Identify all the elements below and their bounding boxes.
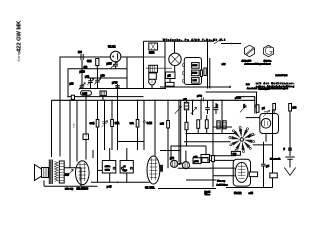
svg-text:0.1M: 0.1M [86,134,88,139]
svg-text:μF500: μF500 [235,97,242,99]
svg-text:Mot.El: Mot.El [205,191,211,194]
svg-text:6M1: 6M1 [87,61,92,63]
svg-text:4G8+Ba: 4G8+Ba [264,61,273,63]
svg-text:NHM: NHM [149,53,154,55]
svg-text:DC30: DC30 [192,73,198,75]
svg-text:μH: μH [168,76,171,78]
svg-text:422 GW MK: 422 GW MK [17,20,23,52]
svg-text:Wua cap: Wua cap [217,180,226,182]
svg-text:μ-45: μ-45 [107,187,112,189]
svg-text:Bei 220 Volt: Bei 220 Volt [276,74,288,77]
svg-text:0.1M: 0.1M [147,123,152,125]
svg-text:An/El Tubes: An/El Tubes [217,183,228,186]
svg-text:Außenansicht gezeichnet: Außenansicht gezeichnet [245,63,271,66]
svg-text:1/2 AZ180: 1/2 AZ180 [77,188,89,191]
svg-text:Bei:: Bei: [246,84,250,86]
svg-text:nMPa: nMPa [105,166,111,168]
svg-text:U4 1/2: U4 1/2 [234,192,242,195]
svg-text:μF50: μF50 [197,95,203,97]
svg-text:μF45: μF45 [112,83,118,85]
svg-text:+G5: +G5 [249,193,254,195]
svg-text:μF37: μF37 [107,64,113,66]
svg-text:cmQ: cmQ [90,123,95,125]
svg-text:+Gr: +Gr [222,63,226,66]
svg-text:Tubes: Tubes [205,194,210,196]
svg-text:UZ A11: UZ A11 [108,46,116,49]
svg-text:Netzanschl.: Netzanschl. [270,157,281,160]
svg-text:LSE: LSE [193,80,197,82]
svg-text:G300: G300 [192,65,198,67]
svg-text:0.05: 0.05 [82,92,87,95]
svg-text:C/L UCL: C/L UCL [145,187,155,190]
svg-text:mit der Entbrummer-: mit der Entbrummer- [256,82,294,85]
svg-text:11: 11 [150,80,153,84]
svg-text:Ansicht Empfindlichkeitsregle: Ansicht Empfindlichkeitsregler [247,87,288,90]
svg-text:4G/7+4G8: 4G/7+4G8 [242,61,252,63]
svg-text:mta cap: mta cap [65,188,74,191]
svg-text:μF20: μF20 [80,72,86,74]
